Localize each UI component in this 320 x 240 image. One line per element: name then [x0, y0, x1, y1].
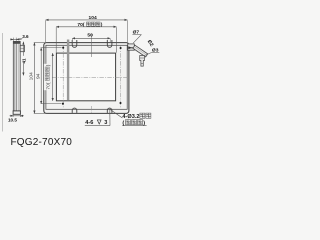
svg-text:94: 94: [36, 73, 42, 79]
svg-text:10.5: 10.5: [8, 118, 17, 123]
svg-text:3.6: 3.6: [22, 34, 29, 39]
svg-text:3: 3: [104, 120, 107, 126]
svg-text:104: 104: [28, 72, 34, 80]
svg-text:70(: 70(: [77, 22, 84, 28]
svg-text:50: 50: [87, 32, 93, 38]
svg-text:FQG2-70X70: FQG2-70X70: [11, 137, 73, 148]
svg-text:70(: 70(: [45, 82, 51, 89]
svg-text:4-Ø3.2: 4-Ø3.2: [122, 114, 139, 120]
svg-text:4-6: 4-6: [85, 120, 93, 126]
svg-text:41: 41: [21, 58, 26, 64]
